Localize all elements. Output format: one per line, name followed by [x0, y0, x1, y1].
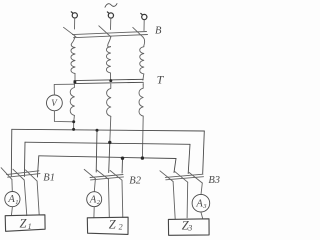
svg-text:2: 2 [97, 199, 101, 206]
svg-text:T: T [157, 73, 165, 87]
svg-text:Z: Z [109, 217, 117, 231]
svg-text:B1: B1 [43, 173, 55, 184]
svg-text:1: 1 [28, 222, 32, 231]
svg-text:A: A [195, 199, 203, 210]
svg-text:B: B [155, 25, 162, 36]
svg-text:3: 3 [202, 203, 207, 210]
svg-text:Z: Z [20, 216, 28, 230]
svg-text:1: 1 [15, 199, 18, 206]
svg-text:2: 2 [119, 223, 123, 232]
svg-text:A: A [7, 194, 15, 205]
svg-text:V: V [51, 98, 58, 108]
svg-text:B2: B2 [129, 175, 141, 186]
svg-text:A: A [89, 194, 97, 205]
svg-text:B3: B3 [208, 175, 220, 186]
svg-text:3: 3 [187, 224, 192, 233]
